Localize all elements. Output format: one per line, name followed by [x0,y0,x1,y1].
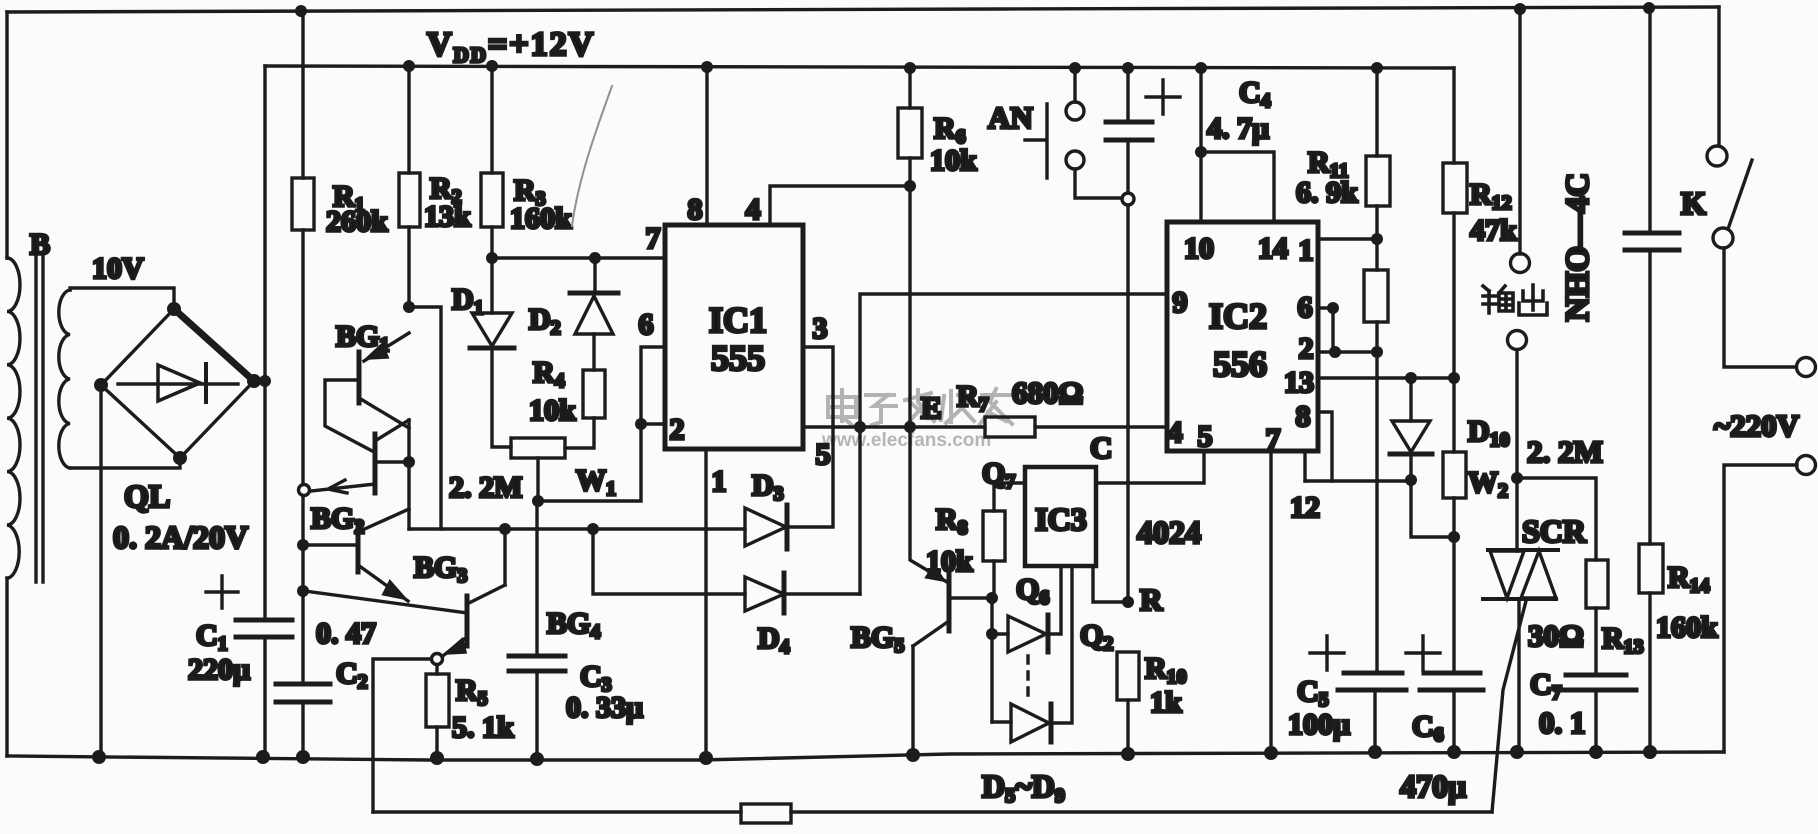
label 220u [188,653,250,686]
C4 plus sign [1146,80,1180,114]
svg-text:260k: 260k [326,205,388,238]
junction pin2 wire [635,418,647,430]
wire D4 cathode riser to pin9 of IC2 [860,294,1167,594]
pin label 7 [646,222,661,255]
wire secondary bottom lead to bridge [70,458,180,468]
junction E wire at R6 column [904,421,916,433]
junction chain at D6 [986,628,998,640]
junction VDD at C4 [1122,62,1134,74]
svg-text:2: 2 [670,413,685,446]
svg-text:~220V: ~220V [1714,408,1800,443]
pin label 6 IC2 [1298,291,1313,324]
capacitor C1 [236,620,292,637]
label 260k [326,205,388,238]
wire D10 node to W2 bottom [1411,480,1454,537]
label VDD = +12V [427,26,595,67]
wire R2 node to collector riser [409,307,441,529]
C6 plus sign [1406,636,1440,670]
relay capacitor column [1648,8,1651,544]
junction E wire at riser [854,421,866,433]
junction latch base node [403,456,415,468]
diode D4 [745,573,860,613]
junction ground at SCR [1510,745,1524,759]
svg-text:4: 4 [1168,416,1183,449]
resistor R12 column from VDD end [1452,68,1455,378]
label QL [124,478,170,514]
label 100u [1288,708,1350,741]
label BG3 [414,551,467,587]
C1 plus sign [206,576,238,608]
junction pin2 jog [1329,346,1341,358]
svg-text:5: 5 [816,438,831,471]
pin label 8 [688,193,703,226]
wire wiper node to IC1 pins 2 and 6 [538,347,665,501]
label BG1 [336,320,389,356]
pin label 10 [1184,232,1214,265]
junction bridge right vertex [247,374,261,388]
resistor R5 [426,665,449,758]
pin label 6 [639,308,654,341]
resistor R1 [292,178,314,230]
diode D1 [470,258,514,447]
label E [921,390,942,425]
label 680ohm [1012,375,1083,410]
label 0.2A/20V [113,519,248,555]
junction ground at C3 [530,752,544,766]
wire IC2 pin12 stub [1303,451,1306,481]
pin label 5 IC2 [1198,420,1213,453]
label 556 [1213,344,1267,384]
wire W1 wiper down [536,458,539,501]
wire latch node down to D3 line [407,420,410,529]
wire VDD rail [265,66,1454,68]
junction ground at pin1 [699,751,713,765]
junction pin2 at column [1371,346,1383,358]
svg-text:8: 8 [688,193,703,226]
capacitor C2 [276,684,330,702]
junction VDD at R11 [1371,62,1383,74]
diode D2 [570,258,618,370]
label C6 [1412,710,1444,746]
switch K bottom contact [1713,228,1733,248]
wire bottom feedback line [373,810,1492,813]
label 470u [1400,768,1466,804]
resistor R13 [1586,560,1608,675]
label R14 [1668,561,1710,597]
triac SCR [1483,478,1558,599]
label R12 [1470,178,1512,214]
wire output column from top rail [1518,9,1521,254]
pin label 8 IC2 [1296,400,1311,433]
junction top rail at R1 column [295,5,307,17]
svg-text:VDD=+12V: VDD=+12V [427,26,595,67]
svg-text:470μ: 470μ [1400,768,1466,804]
svg-text:4024: 4024 [1137,514,1201,550]
label 555 [711,338,765,378]
wire AN top to VDD [1073,68,1076,102]
transistor BG1 [325,333,409,452]
label D10 [1468,415,1510,451]
resistor R11 column [1375,68,1378,239]
resistor R2 column [407,66,410,307]
resistor R11 [1366,156,1390,206]
svg-text:3: 3 [813,312,828,345]
wire D3 anode line [409,527,745,530]
transformer secondary winding [59,290,70,468]
svg-text:E: E [921,390,942,425]
label AN [988,100,1033,135]
junction R3-D1 node [486,252,498,264]
svg-text:6: 6 [1298,291,1313,324]
svg-text:0. 33μ: 0. 33μ [566,691,643,724]
label IC3 [1035,501,1087,537]
label D2 [529,303,561,339]
transistor BG5 [910,427,991,755]
junction R node [1122,596,1134,608]
wire R4 bottom to W1 right [565,418,594,448]
label R4 [533,356,565,392]
wire pin12 line to D10 bottom [1305,479,1411,482]
wire IC3 Q2 stub to R node [1093,566,1128,602]
capacitor C4 column [1126,68,1129,602]
svg-text:IC2: IC2 [1209,296,1267,336]
label R8 [936,503,968,539]
wire IC2 pin13 line [1318,376,1454,379]
junction bridge top vertex [167,302,181,316]
label BG2 [311,502,364,538]
pushbutton AN circles [1066,102,1084,169]
timer IC2 556 box [1167,222,1318,451]
resistor unlabeled in feedback line [741,804,791,823]
junction D3 wire at BG3 collector [499,523,511,535]
label R6 [934,112,966,148]
junction bridge bottom vertex [173,451,187,465]
junction R6 bottom pin4 wire [904,180,916,192]
label 4.7u [1207,112,1269,145]
junction wiper node [532,495,544,507]
resistor R6 column [908,68,911,427]
counter IC3 box [1025,467,1096,566]
capacitor C3 column [535,501,538,759]
resistor R8 [983,483,1025,598]
junction pin10 column loop [1195,146,1207,158]
capacitor C7 [1556,675,1636,752]
wire AN bottom to C4 column [1075,169,1121,198]
junction ground at C2 column [296,750,310,764]
svg-text:100μ: 100μ [1288,708,1350,741]
wire top supply rail [7,7,1719,12]
label 6.9k [1296,176,1358,209]
svg-text:220μ: 220μ [188,653,250,686]
junction VDD at pin8 [701,61,713,73]
wire 2.2M line to R13 [1517,478,1596,560]
label Q7 [982,457,1015,493]
svg-text:8: 8 [1296,400,1311,433]
junction ground at bridge column [92,750,106,764]
label BG4 [547,607,600,643]
wire left edge down to transformer primary [5,12,8,258]
wire IC2 pin8 jog down [1318,412,1332,481]
wire IC1 pin1 to ground [704,449,707,758]
svg-text:2. 2M: 2. 2M [449,471,522,504]
pin label 2 [670,413,685,446]
wire diode chain anode column [990,598,993,722]
label BG5 [851,621,904,657]
svg-text:9: 9 [1173,286,1188,319]
junction R2 bottom node [403,301,415,313]
label R7 [957,380,989,416]
svg-text:10: 10 [1184,232,1214,265]
junction pin13 at D10 [1405,372,1417,384]
resistor R6 [898,108,922,158]
label R3 [514,174,546,210]
pin label 5 [816,438,831,471]
svg-text:680Ω: 680Ω [1012,375,1083,410]
wire node to IC1 pin7 [492,256,665,259]
label C5 [1297,675,1329,711]
svg-text:5: 5 [1198,420,1213,453]
junction ground at C1 column [256,750,270,764]
diode D9 to IC3 [992,566,1072,742]
resistor R3 [481,173,503,227]
label 160k R14 [1656,611,1718,644]
junction ground at R10 [1121,747,1135,761]
label IC1 [709,300,767,340]
diode D3 [745,505,787,549]
label R5 [456,674,488,710]
label 13k [424,200,471,233]
wire ground rail [7,752,1724,760]
resistor R4 [583,370,605,418]
capacitor C5 column from pin2 node [1375,352,1377,752]
svg-text:2: 2 [1299,332,1314,365]
svg-text:1: 1 [1299,234,1314,267]
junction VDD at R3 [486,60,498,72]
junction ground at C6 [1447,745,1461,759]
transformer core [36,253,43,582]
label 5.1k [452,711,514,744]
switch K blade [1728,160,1752,229]
svg-text:160k: 160k [510,202,572,235]
label 1k [1150,686,1182,719]
junction top rail at output column [1514,3,1526,15]
bridge rectifier inner diode [118,364,238,402]
label D3 [752,469,784,505]
wire IC2 pin10 stub to VDD [1199,68,1202,222]
resistor R14 [1639,544,1663,752]
wire K to mains upper terminal [1724,248,1796,367]
junction BG5 base node [986,592,998,604]
svg-text:2. 2M: 2. 2M [1527,434,1603,469]
label Q6 [1016,573,1049,609]
transformer primary winding [7,258,20,578]
wire E node line IC1 pin5 to IC2 pin4 [803,425,1167,428]
junction ground at C7 [1589,745,1603,759]
junction D2 top node [589,252,601,264]
svg-text:0. 1: 0. 1 [1539,705,1586,740]
label C3 [580,660,612,696]
capacitor C6 [1420,673,1483,690]
label IC2 [1209,296,1267,336]
capacitor C5 [1338,673,1406,690]
diode D10 [1390,378,1432,480]
wire left edge below primary to ground rail [5,578,8,756]
terminal output upper [1511,254,1530,273]
diode D6 to IC3 Q6 [992,566,1061,652]
label C2 [336,657,368,693]
relay capacitor [1625,233,1679,250]
label 2.2M W1 [449,471,522,504]
junction pin1 node [1371,233,1383,245]
label D4 [758,622,790,658]
label 10V secondary voltage [92,252,144,285]
junction plus column at bridge [259,375,271,387]
junction top rail at relay cap column [1643,2,1655,14]
C5 plus sign [1310,636,1344,670]
label R node [1140,582,1163,617]
node ring AN-C4 junction [1122,193,1134,205]
junction BG2 base at column [297,539,309,551]
svg-text:10k: 10k [930,144,977,177]
label C1 [196,619,228,655]
pin label 13 [1284,366,1314,399]
wire IC1 pin3 to D3 cathode [787,347,833,527]
svg-text:12: 12 [1290,491,1320,524]
svg-text:47k: 47k [1470,214,1517,247]
label SCR [1522,513,1587,549]
svg-text:0. 47: 0. 47 [316,617,376,650]
potentiometer W2 [1443,378,1466,537]
junction D10 bottom node [1405,474,1417,486]
junction VDD at R2 [403,60,415,72]
label 160k [510,202,572,235]
resistor R1 column from top rail [301,11,304,757]
svg-text:0. 2A/20V: 0. 2A/20V [113,519,248,555]
label R1 [333,180,365,216]
pin label 3 [813,312,828,345]
capacitor C6 column [1452,537,1455,752]
svg-text:555: 555 [711,338,765,378]
junction ground at pin7 [1264,746,1278,760]
label ~220V [1714,408,1800,443]
label W1 [576,464,616,500]
svg-text:B: B [30,228,50,261]
svg-text:13: 13 [1284,366,1314,399]
pin label 14 [1258,232,1288,265]
svg-text:13k: 13k [424,200,471,233]
junction pin6 node [1327,302,1339,314]
junction BG3 base at column [297,585,309,597]
wire SCR MT2 to ground [1517,599,1520,752]
resistor R10 [1117,652,1139,754]
junction D2 column at D4 line [587,523,599,535]
bridge rectifier QL diamond [101,309,254,458]
svg-text:1: 1 [712,465,727,498]
resistor R2 [399,173,420,227]
label C4 [1239,76,1271,112]
label 2.2M right [1527,434,1603,469]
pin label 1 [712,465,727,498]
pin label 4 [746,193,761,226]
transformer B label [30,228,50,261]
label D5~D9 [982,768,1065,807]
transistor BG2 [305,509,409,601]
wire IC2 pin2 node [1318,350,1377,353]
pin label 1 IC2 [1299,234,1314,267]
svg-text:6: 6 [639,308,654,341]
junction ground at R5 [430,751,444,765]
svg-text:C: C [1090,430,1112,465]
switch K column [1717,7,1720,146]
label 0.33u [566,691,643,724]
junction bridge left vertex [94,378,108,392]
label D1 [452,283,484,319]
wire VDD left end down through C1 to ground [263,66,266,756]
label R13 [1602,622,1644,658]
wire IC2 pin1 to R11 bottom [1318,237,1377,240]
capacitor C4 [1106,122,1152,140]
dashed continuation of diode chain [1026,656,1029,702]
svg-text:www.elecfans.com: www.elecfans.com [821,430,991,451]
junction VDD at AN [1069,62,1081,74]
wire secondary top lead to bridge [70,288,174,309]
label 0.47 [316,617,376,650]
pin label 12 [1290,491,1320,524]
junction ground at R14 [1643,745,1657,759]
switch K top contact [1707,146,1727,166]
label R2 [430,172,462,208]
svg-text:14: 14 [1258,232,1288,265]
resistor R7 [985,417,1035,437]
svg-text:SCR: SCR [1522,513,1587,549]
resistor R12 [1443,163,1467,213]
svg-text:30Ω: 30Ω [1528,618,1584,653]
wire bridge minus vertex to ground [99,385,102,757]
wire feedback from BG3 emitter ring to bottom line [373,659,431,812]
label NHO-4C vertical [1560,173,1596,322]
svg-text:4. 7μ: 4. 7μ [1207,112,1269,145]
svg-text:K: K [1681,185,1706,221]
svg-text:NHO—4C: NHO—4C [1560,173,1596,322]
junction VDD at pin10 [1195,62,1207,74]
wire D4 anode from D2 column [593,529,745,594]
svg-text:D5~D9: D5~D9 [982,768,1065,807]
svg-text:160k: 160k [1656,611,1718,644]
terminal output lower [1508,331,1527,350]
potentiometer W1 [511,438,565,458]
op-amp timer IC1 555 box [665,225,803,449]
pin label 2 IC2 [1299,332,1314,365]
svg-text:556: 556 [1213,344,1267,384]
wire pin14 loop [1201,152,1274,222]
wire BG3 collector riser [503,529,506,585]
label 10k R8 [926,545,973,578]
pin label 4 IC2 [1168,416,1183,449]
svg-text:IC3: IC3 [1035,501,1087,537]
pin 4 jog IC1 to R6 bottom [770,186,910,225]
svg-text:10k: 10k [529,394,576,427]
svg-text:10V: 10V [92,252,144,285]
wire IC2 pin6 jog [1318,308,1333,352]
svg-text:AN: AN [988,100,1033,135]
label 30ohm [1528,618,1584,653]
resistor R3 column [490,66,493,258]
wire feedback to SCR gate [1492,601,1526,812]
wire output lower to SCR node [1515,350,1518,478]
svg-text:QL: QL [124,478,170,514]
label 10k R4 [529,394,576,427]
svg-text:IC1: IC1 [709,300,767,340]
